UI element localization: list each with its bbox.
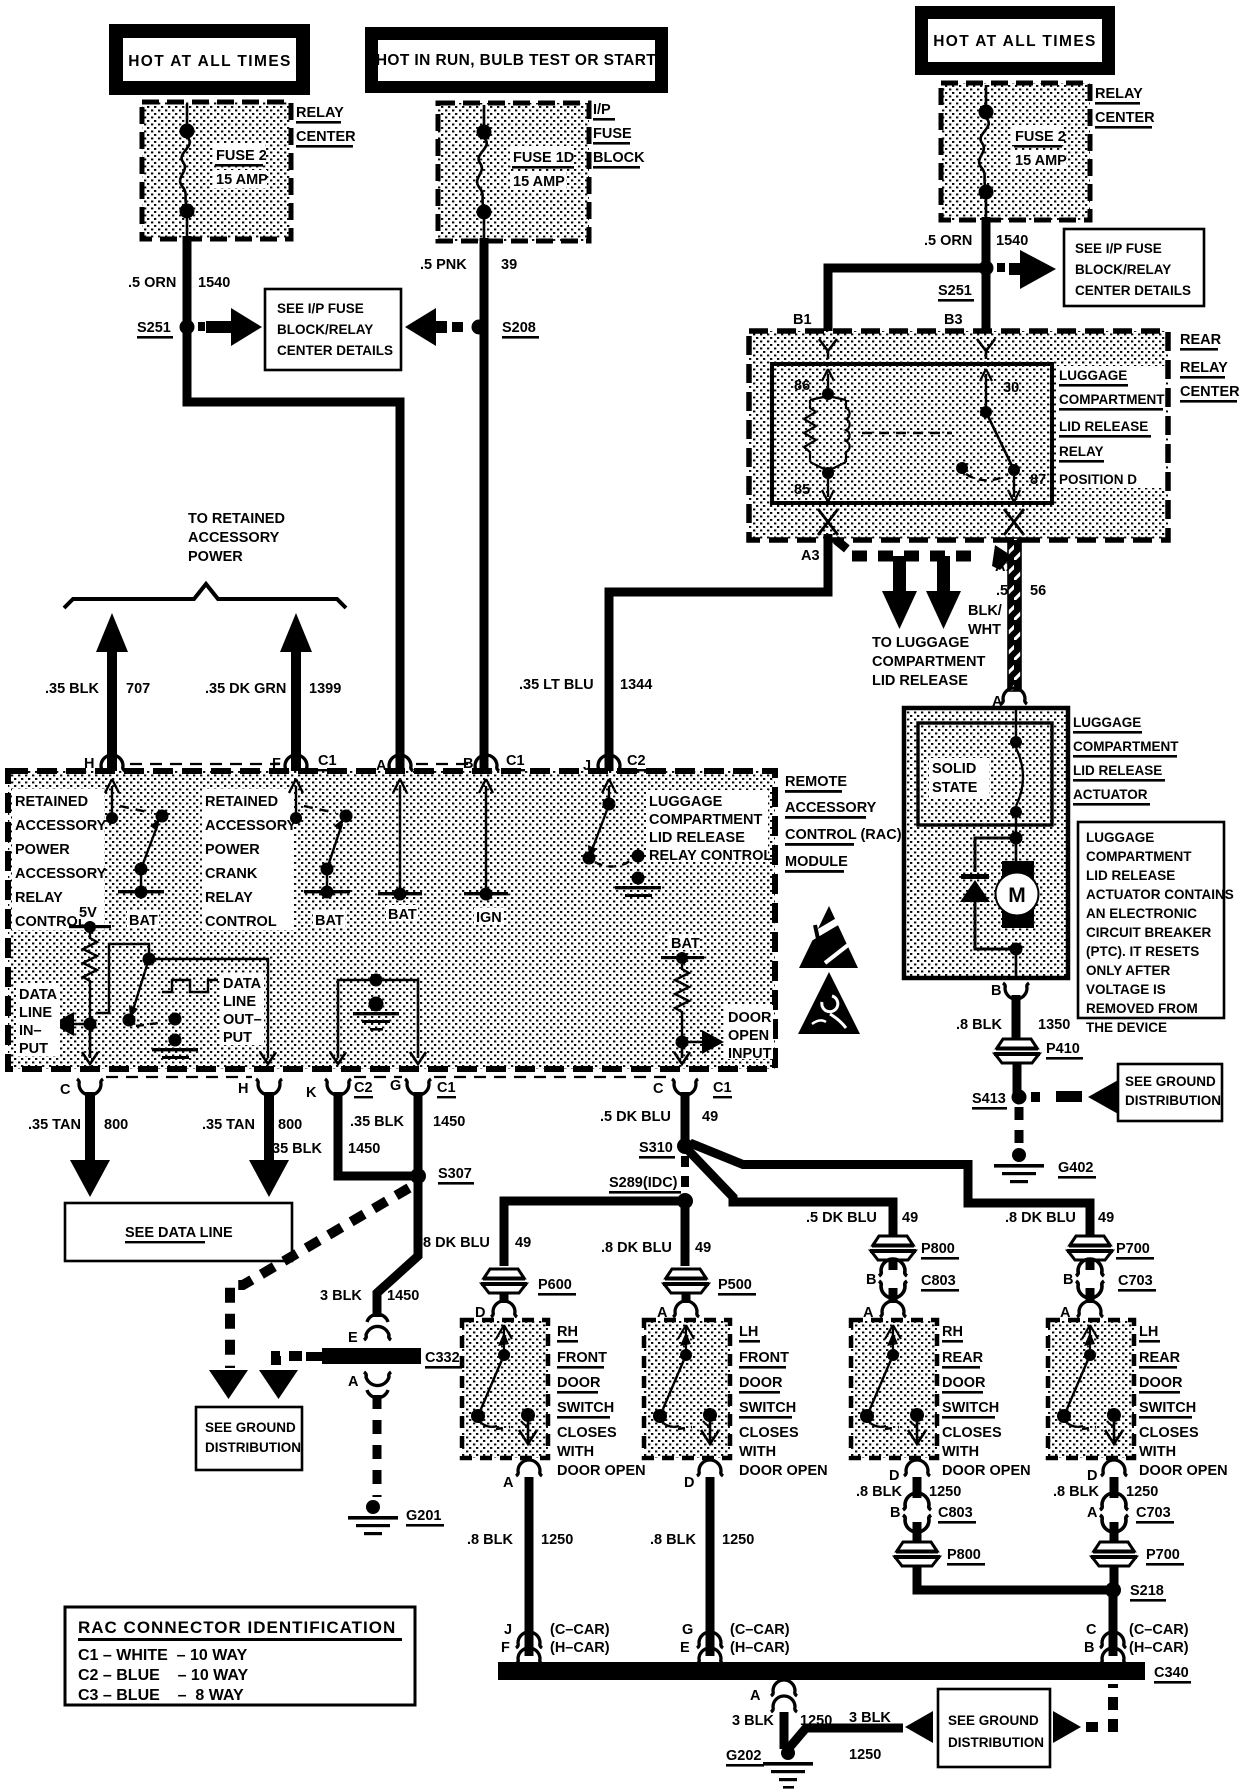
- svg-text:S251: S251: [938, 283, 972, 299]
- svg-text:1450: 1450: [387, 1288, 419, 1304]
- svg-text:ACCESSORY: ACCESSORY: [785, 800, 877, 816]
- ref box SEE I/P FUSE BLOCK/RELAY CENTER DETAILS (right): [1064, 229, 1204, 306]
- svg-text:.5 DK BLU: .5 DK BLU: [806, 1210, 877, 1226]
- wire C703 to switch: [1086, 1288, 1095, 1303]
- svg-text:FUSE 2: FUSE 2: [216, 148, 267, 164]
- title box HOT IN RUN, BULB TEST OR START: [365, 27, 668, 93]
- svg-text:AN ELECTRONIC: AN ELECTRONIC: [1086, 906, 1197, 921]
- ground G201: [348, 1500, 444, 1535]
- connector fork D (RH rear bottom): [904, 1460, 930, 1476]
- wire A3 down to RAC pin J: [609, 534, 828, 773]
- svg-text:B1: B1: [793, 312, 812, 328]
- svg-text:LUGGAGE: LUGGAGE: [649, 794, 723, 810]
- svg-text:BAT: BAT: [129, 913, 158, 929]
- connector fork D (LH rear bottom): [1101, 1460, 1127, 1476]
- svg-text:.35 BLK: .35 BLK: [268, 1141, 323, 1157]
- svg-text:DATA: DATA: [223, 976, 262, 992]
- svg-text:A: A: [1087, 1505, 1098, 1521]
- pin B IGN arrow: [464, 779, 508, 926]
- arrow into see-box (right): [1009, 250, 1056, 289]
- fuse block box (I/P fuse block): [438, 103, 589, 241]
- svg-text:HOT AT ALL TIMES: HOT AT ALL TIMES: [128, 53, 292, 70]
- pin F driver: arrow, dots, T-bar: [289, 779, 353, 929]
- wire label .8 BLK 1350: [956, 1017, 1070, 1033]
- svg-text:P600: P600: [538, 1277, 572, 1293]
- svg-text:1250: 1250: [929, 1484, 961, 1500]
- hatched wire A1 to actuator pin A: [1008, 538, 1021, 691]
- svg-text:COMPARTMENT: COMPARTMENT: [872, 654, 985, 670]
- svg-text:LINE: LINE: [223, 994, 256, 1010]
- splice S218: [1105, 1582, 1166, 1602]
- wire C803 to P800 (bottom): [913, 1522, 922, 1542]
- pin label B + inline connector C703 (top): [1063, 1259, 1156, 1298]
- svg-text:SWITCH: SWITCH: [557, 1400, 614, 1416]
- svg-text:.35 DK GRN: .35 DK GRN: [205, 681, 286, 697]
- svg-text:C: C: [653, 1081, 664, 1097]
- svg-text:C703: C703: [1136, 1505, 1171, 1521]
- svg-text:.5 ORN: .5 ORN: [924, 233, 972, 249]
- label RETAINED ACCESSORY POWER CRANK RELAY CONTROL: [202, 789, 297, 930]
- label RETAINED ACCESSORY POWER ACCESSORY RELAY CONTROL: [12, 789, 107, 930]
- svg-text:.8 DK BLU: .8 DK BLU: [601, 1240, 672, 1256]
- svg-text:S218: S218: [1130, 1583, 1164, 1599]
- svg-text:STATE: STATE: [932, 780, 978, 796]
- connector fork B3: [977, 339, 995, 359]
- svg-text:REMOTE: REMOTE: [785, 774, 847, 790]
- svg-text:87: 87: [1030, 472, 1046, 488]
- svg-text:G402: G402: [1058, 1160, 1093, 1176]
- connector P410: [994, 1039, 1083, 1063]
- svg-text:SWITCH: SWITCH: [942, 1400, 999, 1416]
- svg-text:REAR: REAR: [1180, 332, 1222, 348]
- ESD triangle 1: [796, 906, 858, 968]
- svg-text:RELAY CONTROL: RELAY CONTROL: [649, 848, 772, 864]
- svg-text:.8 BLK: .8 BLK: [856, 1484, 902, 1500]
- arrow into see ground distribution (left, tip left): [905, 1711, 933, 1743]
- ESD triangle 2: [798, 972, 860, 1034]
- svg-text:3 BLK: 3 BLK: [320, 1288, 362, 1304]
- dashed wire S413 to G402: [1015, 1107, 1024, 1148]
- svg-text:S310: S310: [639, 1140, 673, 1156]
- svg-text:FRONT: FRONT: [739, 1350, 789, 1366]
- wire label .35 BLK 1450 (pin K): [268, 1141, 380, 1157]
- top pin labels H F C1 A B C1 J C2: [84, 753, 646, 774]
- fuse block box (Relay Center, left): [142, 102, 291, 239]
- svg-text:BLOCK/RELAY: BLOCK/RELAY: [277, 322, 373, 337]
- wire arrow F to retained accessory power: [280, 613, 312, 773]
- svg-text:P800: P800: [947, 1547, 981, 1563]
- svg-text:E: E: [348, 1330, 358, 1346]
- svg-text:.35 LT BLU: .35 LT BLU: [519, 677, 594, 693]
- data line output driver: [96, 944, 276, 1064]
- wire S218 to C340 pin C/B: [1109, 1590, 1118, 1656]
- svg-text:M: M: [1008, 884, 1026, 907]
- svg-text:B3: B3: [944, 312, 963, 328]
- pin label B + inline connector C803 (top): [866, 1259, 959, 1298]
- wire label .8 BLK 1250 (LH rear): [1053, 1484, 1158, 1500]
- svg-text:C332: C332: [425, 1350, 460, 1366]
- wire label .5 PNK 39: [420, 257, 517, 273]
- svg-text:C703: C703: [1118, 1273, 1153, 1289]
- svg-text:CONTROL: CONTROL: [205, 914, 277, 930]
- svg-text:BAT: BAT: [388, 907, 417, 923]
- wire label .5 ORN 1540: [128, 275, 230, 291]
- svg-text:P700: P700: [1146, 1547, 1180, 1563]
- svg-text:15 AMP: 15 AMP: [1015, 153, 1067, 169]
- pin label A + inline connector C703 (bottom): [1087, 1493, 1174, 1532]
- svg-text:WITH: WITH: [1139, 1444, 1176, 1460]
- svg-text:G202: G202: [726, 1748, 761, 1764]
- connector P800: [870, 1236, 959, 1260]
- svg-text:C2: C2: [627, 753, 646, 769]
- svg-text:BAT: BAT: [315, 913, 344, 929]
- svg-text:CENTER DETAILS: CENTER DETAILS: [1075, 283, 1191, 298]
- svg-text:WITH: WITH: [557, 1444, 594, 1460]
- svg-text:B: B: [890, 1505, 900, 1521]
- ref box SEE DATA LINE: [65, 1203, 292, 1261]
- svg-text:TO RETAINED: TO RETAINED: [188, 511, 285, 527]
- wire to C803 (bottom): [913, 1477, 922, 1498]
- svg-text:I/P: I/P: [593, 102, 611, 118]
- label TO LUGGAGE COMPARTMENT LID RELEASE: [872, 635, 985, 689]
- svg-text:CENTER: CENTER: [296, 129, 356, 145]
- svg-text:DISTRIBUTION: DISTRIBUTION: [1125, 1093, 1221, 1108]
- svg-text:1250: 1250: [1126, 1484, 1158, 1500]
- connector fork A (LH rear): [1077, 1301, 1103, 1317]
- relay pin 85 arrow: [794, 479, 834, 502]
- svg-text:RELAY: RELAY: [15, 890, 63, 906]
- connector fork A (LH front): [673, 1301, 699, 1317]
- svg-text:FRONT: FRONT: [557, 1350, 607, 1366]
- svg-text:B: B: [991, 983, 1001, 999]
- arrow into see-box (from S208): [405, 308, 447, 346]
- svg-text:RH: RH: [942, 1324, 963, 1340]
- svg-text:39: 39: [501, 257, 517, 273]
- svg-text:800: 800: [278, 1117, 302, 1133]
- pin H driver: arrow, dots, T-bar: [105, 779, 169, 929]
- svg-text:.8 BLK: .8 BLK: [956, 1017, 1002, 1033]
- label REMOTE ACCESSORY CONTROL (RAC) MODULE: [785, 774, 902, 873]
- connector dash A-B: [416, 763, 470, 765]
- connector P700 (bottom): [1091, 1542, 1184, 1566]
- svg-text:LUGGAGE: LUGGAGE: [1086, 830, 1154, 845]
- label RH REAR DOOR SWITCH CLOSES WITH DOOR OPEN: [942, 1324, 1031, 1479]
- svg-text:A: A: [348, 1374, 359, 1390]
- splice S208: [472, 320, 540, 339]
- dashed wire C332 to see ground distribution: [259, 1356, 302, 1399]
- svg-text:S289(IDC): S289(IDC): [609, 1175, 678, 1191]
- svg-text:A: A: [376, 758, 387, 774]
- svg-text:DOOR OPEN: DOOR OPEN: [1139, 1463, 1228, 1479]
- wire label .35 LT BLU 1344: [519, 677, 652, 693]
- svg-text:WHT: WHT: [968, 622, 1001, 638]
- relay pin 86 arrow: [794, 369, 834, 394]
- svg-text:OUT–: OUT–: [223, 1012, 262, 1028]
- svg-text:1540: 1540: [996, 233, 1028, 249]
- svg-text:A3: A3: [801, 548, 820, 564]
- svg-text:DOOR: DOOR: [942, 1375, 986, 1391]
- svg-text:707: 707: [126, 681, 150, 697]
- svg-text:RELAY: RELAY: [296, 105, 344, 121]
- connector P700: [1067, 1236, 1154, 1260]
- svg-text:LUGGAGE: LUGGAGE: [1073, 715, 1141, 730]
- K G ground circuit: [330, 974, 426, 1065]
- svg-text:(H–CAR): (H–CAR): [1129, 1640, 1189, 1656]
- label LUGGAGE COMPARTMENT LID RELEASE RELAY CONTROL: [646, 790, 772, 864]
- svg-text:TO LUGGAGE: TO LUGGAGE: [872, 635, 970, 651]
- svg-text:56: 56: [1030, 583, 1046, 599]
- svg-text:POWER: POWER: [15, 842, 70, 858]
- wire label .8 DK BLU 49 (P600): [419, 1235, 531, 1251]
- svg-text:SEE GROUND: SEE GROUND: [1125, 1074, 1216, 1089]
- svg-text:CLOSES: CLOSES: [557, 1425, 617, 1441]
- wire pin C down arrow to SEE DATA LINE: [70, 1092, 110, 1197]
- svg-text:DOOR OPEN: DOOR OPEN: [739, 1463, 828, 1479]
- svg-text:.5: .5: [996, 583, 1008, 599]
- wire pin K to S307: [338, 1092, 414, 1176]
- connector fork C/B (C340): [1100, 1632, 1126, 1664]
- svg-text:RETAINED: RETAINED: [205, 794, 278, 810]
- svg-text:3 BLK: 3 BLK: [732, 1713, 774, 1729]
- wire label .8 DK BLU 49 (P500): [601, 1240, 711, 1256]
- svg-text:.35 TAN: .35 TAN: [28, 1117, 81, 1133]
- relay pin 30 arrow: [980, 369, 1019, 410]
- svg-text:15 AMP: 15 AMP: [513, 174, 565, 190]
- svg-text:THE DEVICE: THE DEVICE: [1086, 1020, 1167, 1035]
- svg-text:DISTRIBUTION: DISTRIBUTION: [948, 1735, 1044, 1750]
- ref box SEE I/P FUSE BLOCK/RELAY CENTER DETAILS (left): [265, 289, 401, 370]
- svg-text:G: G: [682, 1622, 693, 1638]
- svg-text:RAC CONNECTOR IDENTIFICATION: RAC CONNECTOR IDENTIFICATION: [78, 1618, 396, 1637]
- svg-text:S307: S307: [438, 1166, 472, 1182]
- svg-text:REMOVED FROM: REMOVED FROM: [1086, 1001, 1198, 1016]
- wire P410 to S413: [1013, 1063, 1022, 1097]
- svg-text:P500: P500: [718, 1277, 752, 1293]
- svg-text:.35 TAN: .35 TAN: [202, 1117, 255, 1133]
- note box: actuator contains PTC breaker: [1078, 822, 1234, 1035]
- svg-text:.8 DK BLU: .8 DK BLU: [419, 1235, 490, 1251]
- arrow to luggage compartment lid release (2): [926, 556, 961, 629]
- svg-text:1399: 1399: [309, 681, 341, 697]
- pin labels G E (C-CAR)(H-CAR): [680, 1622, 790, 1656]
- svg-text:COMPARTMENT: COMPARTMENT: [649, 812, 762, 828]
- data line 5V circuit: [52, 903, 111, 1064]
- svg-text:P700: P700: [1116, 1241, 1150, 1257]
- svg-text:POWER: POWER: [205, 842, 260, 858]
- svg-text:C340: C340: [1154, 1665, 1189, 1681]
- svg-text:A: A: [750, 1688, 761, 1704]
- wire label .8 BLK 1250 (RH rear): [856, 1484, 961, 1500]
- svg-text:DISTRIBUTION: DISTRIBUTION: [205, 1440, 301, 1455]
- relay pin 87 arrow: [1008, 476, 1020, 502]
- connector fork E: [364, 1314, 391, 1340]
- dashed wire A3 to luggage release arrows to A1: [836, 540, 1012, 570]
- svg-text:PUT: PUT: [19, 1041, 48, 1057]
- rear relay center box: [749, 331, 1168, 540]
- svg-text:15 AMP: 15 AMP: [216, 172, 268, 188]
- dashed wire C332 A to G201: [373, 1395, 382, 1497]
- svg-text:BLOCK/RELAY: BLOCK/RELAY: [1075, 262, 1171, 277]
- svg-text:(PTC). IT RESETS: (PTC). IT RESETS: [1086, 944, 1199, 959]
- wire label 3 BLK 1450: [320, 1288, 419, 1304]
- svg-text:C2 – BLUE – 10 WAY: C2 – BLUE – 10 WAY: [78, 1667, 248, 1684]
- svg-text:ACTUATOR CONTAINS: ACTUATOR CONTAINS: [1086, 887, 1234, 902]
- wire label .35 TAN 800 (pin H): [202, 1117, 302, 1133]
- svg-text:CENTER: CENTER: [1095, 110, 1155, 126]
- svg-text:K: K: [306, 1085, 317, 1101]
- svg-text:WITH: WITH: [942, 1444, 979, 1460]
- connector fork B1: [819, 339, 837, 359]
- svg-text:J: J: [583, 758, 591, 774]
- svg-text:1350: 1350: [1038, 1017, 1070, 1033]
- svg-text:POSITION D: POSITION D: [1059, 472, 1137, 487]
- svg-text:J: J: [504, 1622, 512, 1638]
- svg-text:C803: C803: [921, 1273, 956, 1289]
- connector fork J/F (C340): [516, 1632, 542, 1664]
- svg-text:G: G: [390, 1078, 401, 1094]
- svg-text:F: F: [501, 1640, 510, 1656]
- label LH FRONT DOOR SWITCH CLOSES WITH DOOR OPEN: [739, 1324, 828, 1479]
- svg-text:ACCESSORY: ACCESSORY: [15, 818, 107, 834]
- wire S307 to C332 pin E: [377, 1176, 418, 1317]
- svg-text:C2: C2: [354, 1080, 373, 1096]
- svg-text:1250: 1250: [541, 1532, 573, 1548]
- svg-text:LID RELEASE: LID RELEASE: [1059, 419, 1148, 434]
- wire P700 to S218: [1110, 1566, 1119, 1590]
- svg-text:C1: C1: [437, 1080, 456, 1096]
- svg-text:S208: S208: [502, 320, 536, 336]
- svg-text:DOOR: DOOR: [728, 1010, 772, 1026]
- svg-text:3 BLK: 3 BLK: [849, 1710, 891, 1726]
- connector fork B (actuator): [1003, 983, 1029, 999]
- svg-text:30: 30: [1003, 380, 1019, 396]
- svg-text:RELAY: RELAY: [1095, 86, 1143, 102]
- svg-text:BLOCK: BLOCK: [593, 150, 645, 166]
- ref box SEE GROUND DISTRIBUTION (left): [196, 1407, 302, 1470]
- label DATA LINE OUT-PUT: [220, 973, 264, 1046]
- connector dash K-G: [354, 1076, 402, 1078]
- svg-text:SEE I/P FUSE: SEE I/P FUSE: [277, 301, 364, 316]
- svg-text:C1 – WHITE – 10 WAY: C1 – WHITE – 10 WAY: [78, 1647, 248, 1664]
- wire fuse1D to S208 down to RAC pin B: [480, 238, 489, 773]
- wire label .35 BLK 707: [45, 681, 150, 697]
- svg-text:(C–CAR): (C–CAR): [550, 1622, 610, 1638]
- bus bar C340: [498, 1662, 1191, 1684]
- ref box SEE GROUND DISTRIBUTION (right): [1118, 1064, 1222, 1121]
- LH rear door switch: [1048, 1320, 1134, 1458]
- brace: [64, 584, 346, 608]
- wire P600 to RH front door switch: [500, 1293, 509, 1303]
- pin J driver: arrow down-left with ground contact: [583, 779, 662, 897]
- svg-text:SOLID: SOLID: [932, 761, 976, 777]
- connector fork A1: [1004, 509, 1024, 535]
- label LUGGAGE COMPARTMENT LID RELEASE ACTUATOR: [1073, 715, 1179, 806]
- wire label 3 BLK / 1250 (horizontal): [849, 1710, 891, 1763]
- svg-text:49: 49: [1098, 1210, 1114, 1226]
- solid state switch curve: [1010, 708, 1023, 838]
- svg-text:C1: C1: [318, 753, 337, 769]
- connector fork A (RH front bottom): [516, 1460, 542, 1476]
- connector fork A (RH rear): [880, 1301, 906, 1317]
- svg-text:RETAINED: RETAINED: [15, 794, 88, 810]
- svg-text:IGN: IGN: [476, 910, 502, 926]
- fuse F1D 15A: [477, 105, 575, 241]
- fuse F2 15A (right): [979, 85, 1068, 220]
- pin A BAT arrow: [378, 779, 422, 923]
- svg-text:DATA: DATA: [19, 987, 58, 1003]
- svg-text:ONLY AFTER: ONLY AFTER: [1086, 963, 1171, 978]
- connector fork A3: [818, 509, 838, 535]
- splice S251 (right): [938, 261, 1005, 302]
- svg-text:LUGGAGE: LUGGAGE: [1059, 368, 1127, 383]
- svg-text:.8 BLK: .8 BLK: [650, 1532, 696, 1548]
- svg-text:FUSE: FUSE: [593, 126, 632, 142]
- bottom connector forks (cups) C H K G C: [77, 1079, 103, 1095]
- arrow to luggage compartment lid release (1): [882, 556, 917, 629]
- wire pin H down arrow to SEE DATA LINE: [249, 1092, 289, 1197]
- wire label .8 BLK 1250 (RH front): [467, 1532, 573, 1548]
- motor M: [996, 838, 1039, 928]
- svg-text:SWITCH: SWITCH: [1139, 1400, 1196, 1416]
- fuse F2 15A (left): [180, 104, 269, 239]
- label REAR RELAY CENTER: [1180, 332, 1240, 403]
- wire A to G202: [780, 1712, 789, 1749]
- svg-text:B: B: [866, 1272, 876, 1288]
- ground G202: [726, 1746, 813, 1789]
- arrow into see-box (from S251): [206, 308, 262, 346]
- svg-text:CENTER DETAILS: CENTER DETAILS: [277, 343, 393, 358]
- pin label B + inline connector C803 (bottom): [890, 1493, 976, 1532]
- wire S310 to P700: [690, 1143, 1090, 1240]
- connector P600: [481, 1269, 576, 1296]
- svg-text:H: H: [238, 1081, 248, 1097]
- svg-text:INPUT: INPUT: [728, 1046, 772, 1062]
- wire RH front door switch to C340 pin J/F: [525, 1477, 534, 1656]
- svg-text:B: B: [1063, 1272, 1073, 1288]
- connector dash G-C: [434, 1076, 668, 1078]
- svg-text:COMPARTMENT: COMPARTMENT: [1073, 739, 1179, 754]
- wire G202 to see ground distribution: [789, 1728, 903, 1748]
- connector fork A (below bus): [771, 1680, 797, 1712]
- svg-text:LINE: LINE: [19, 1005, 52, 1021]
- svg-text:RH: RH: [557, 1324, 578, 1340]
- wire label .8 DK BLU 49 (P700): [1005, 1210, 1114, 1226]
- wire LH front door switch to C340 pin G/E: [706, 1477, 715, 1656]
- wire P700 to C703: [1086, 1260, 1095, 1270]
- svg-text:49: 49: [702, 1109, 718, 1125]
- label TO RETAINED ACCESSORY POWER: [188, 511, 285, 565]
- diode: [960, 838, 1016, 949]
- svg-text:1250: 1250: [722, 1532, 754, 1548]
- svg-text:LH: LH: [1139, 1324, 1158, 1340]
- svg-text:CIRCUIT BREAKER: CIRCUIT BREAKER: [1086, 925, 1212, 940]
- svg-text:(H–CAR): (H–CAR): [550, 1640, 610, 1656]
- wire S310 to P800: [688, 1150, 893, 1240]
- svg-text:LID RELEASE: LID RELEASE: [1086, 868, 1175, 883]
- wire P800 to S218: [917, 1566, 1109, 1590]
- wire fuse to S251 to B3: [982, 217, 991, 331]
- svg-text:ACTUATOR: ACTUATOR: [1073, 787, 1148, 802]
- svg-text:ACCESSORY: ACCESSORY: [205, 818, 297, 834]
- wire arrow H to retained accessory power: [96, 613, 128, 773]
- wire label .5 DK BLU 49: [600, 1109, 718, 1125]
- RAC module box: [8, 771, 775, 1069]
- wire label .35 DK GRN 1399: [205, 681, 341, 697]
- svg-text:VOLTAGE IS: VOLTAGE IS: [1086, 982, 1166, 997]
- splice S310: [639, 1138, 693, 1159]
- door open input circuit: [661, 934, 724, 1064]
- wire label .5 BLK/WHT 56: [968, 583, 1046, 638]
